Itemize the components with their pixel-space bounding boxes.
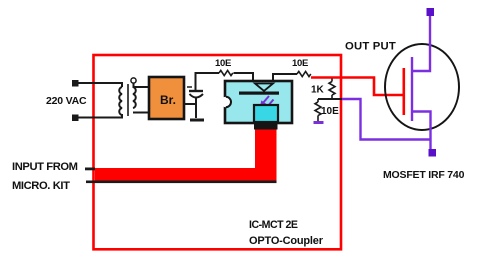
opto-coupler U1 cathode bar: [239, 92, 279, 95]
svg-text:Br.: Br.: [160, 93, 176, 107]
bridge rectifier Br: [149, 77, 184, 119]
wire (thick red input horizontal bar): [95, 168, 277, 181]
svg-text:OUT PUT: OUT PUT: [345, 41, 396, 53]
MOSFET Q1 body circle: [385, 44, 459, 130]
svg-text:10E: 10E: [215, 58, 231, 69]
wire (purple node to MOSFET source): [342, 99, 431, 140]
wire (black input return line): [86, 181, 277, 184]
resistor R2 10E: [297, 71, 311, 76]
wire (cap to top rail): [196, 73, 220, 90]
transformer T1 secondary coil: [133, 87, 136, 108]
transformer T1 core: [127, 84, 129, 116]
terminal J2 (220VAC bottom): [72, 115, 79, 122]
wire (source tap): [412, 112, 431, 151]
transformer T1 primary coil: [119, 87, 122, 115]
svg-text:MICRO. KIT: MICRO. KIT: [12, 180, 70, 192]
terminal (R4 bottom purple dash): [314, 121, 324, 124]
svg-text:IC-MCT 2E: IC-MCT 2E: [249, 219, 298, 231]
wire (bridge + output to cap node): [184, 103, 196, 105]
opto-coupler U1 base bar: [254, 123, 278, 130]
terminal J1 (220VAC top): [72, 80, 79, 87]
opto-coupler U1 body: [221, 81, 292, 123]
svg-text:MOSFET IRF 740: MOSFET IRF 740: [383, 169, 465, 181]
node (secondary top dot): [131, 78, 136, 83]
capacitor C1 plus mark: [187, 86, 192, 88]
svg-text:10E: 10E: [292, 58, 308, 69]
wire (red gate wire from R2 to MOSFET): [311, 78, 403, 96]
capacitor C1: [189, 91, 203, 104]
wire (220VAC top to transformer): [78, 83, 122, 87]
wire (secondary bottom to bridge): [133, 112, 149, 114]
wire (220VAC bottom to transformer): [78, 114, 122, 118]
red enclosure box: [94, 55, 342, 249]
opto-coupler U1 LED triangle: [255, 84, 273, 92]
wire (thick red input vertical bar): [255, 130, 277, 170]
svg-text:1K: 1K: [311, 85, 325, 96]
terminal (source square): [429, 149, 437, 157]
wire (secondary top to bridge): [134, 83, 150, 87]
terminal (drain square): [427, 8, 435, 16]
svg-text:10E: 10E: [321, 106, 339, 117]
wire (node line under 1K): [318, 98, 342, 100]
wire (drain tap): [412, 16, 430, 71]
MOSFET Q1 gate bar: [402, 68, 405, 115]
wire (R1 to opto pin): [234, 73, 254, 81]
opto-coupler U1 light arrows: [261, 96, 274, 110]
svg-text:INPUT FROM: INPUT FROM: [12, 161, 78, 173]
ground: [190, 119, 204, 122]
wire (cap node down): [195, 104, 197, 118]
terminal (input top dash): [85, 168, 95, 171]
svg-text:OPTO-Coupler: OPTO-Coupler: [249, 235, 324, 247]
opto-coupler U1 inner box: [254, 105, 278, 122]
resistor R4 10E: [315, 99, 321, 121]
wire (opto pin to R2): [273, 74, 297, 81]
resistor R1 10E: [219, 70, 233, 75]
resistor R3 1K: [329, 79, 335, 100]
MOSFET Q1 channel bar: [411, 57, 413, 121]
svg-text:220 VAC: 220 VAC: [46, 95, 87, 107]
